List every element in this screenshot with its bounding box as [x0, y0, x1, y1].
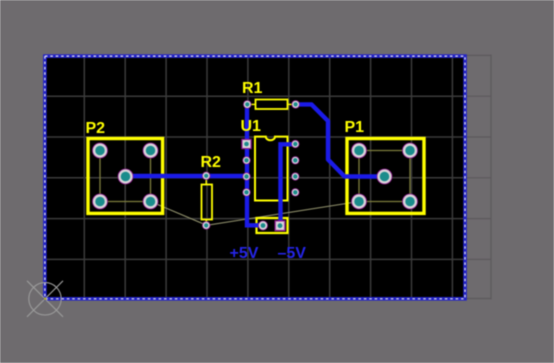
trace R1.2 to P1.center	[296, 104, 385, 176]
P1 pads	[351, 143, 418, 210]
board grid	[44, 55, 465, 299]
resistor R2 outline	[202, 180, 213, 223]
power connector pad 2 square	[275, 220, 286, 231]
origin marker	[27, 281, 63, 317]
label P1	[345, 120, 365, 136]
connector P2 pad-net lines	[100, 151, 151, 202]
connector P1 outline	[347, 139, 424, 214]
connector P2 outline	[88, 139, 163, 214]
workspace grid right of board	[465, 55, 491, 300]
label U1	[241, 119, 261, 135]
trace U1.pin8 to connector pin2	[281, 144, 296, 225]
R1 pads	[243, 100, 300, 108]
connector P1 pad-net lines	[359, 151, 410, 202]
label R1	[242, 81, 262, 97]
U1 right round pads pins 5-8	[291, 140, 299, 197]
U1 pin1 square pad	[241, 139, 251, 149]
trace P2.center to R2.1 to U1.pin3	[126, 174, 247, 178]
board border white dashes	[45, 56, 465, 299]
R2 pads	[202, 172, 210, 230]
net label +5V	[230, 246, 259, 262]
origin point dot	[44, 298, 47, 301]
P2 pads	[92, 143, 158, 210]
trace GND bus: R1.1 down through U1 left pins to connector pin1	[247, 104, 262, 225]
net label -5V	[278, 246, 306, 262]
power connector outline	[257, 218, 288, 233]
label R2	[201, 155, 221, 171]
resistor R1 outline	[251, 100, 291, 110]
label P2	[86, 121, 106, 137]
ratsnest P2.pad5 to R2.pad2 to P1.pad4	[151, 202, 360, 226]
U1 left round pads pins 2-4	[242, 156, 250, 196]
board black area	[44, 55, 466, 299]
power connector pad 1 round	[258, 221, 268, 231]
board border blue	[45, 56, 465, 299]
IC U1 outline with pin-1 notch	[255, 137, 288, 201]
